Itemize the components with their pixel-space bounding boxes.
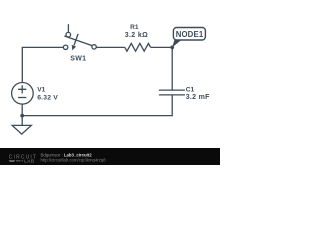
svg-text:R1: R1 (130, 24, 139, 31)
svg-text:LAB: LAB (24, 159, 34, 164)
svg-text:NODE1: NODE1 (176, 30, 204, 39)
svg-text:6.32 V: 6.32 V (37, 95, 58, 102)
svg-text:SW1: SW1 (70, 56, 86, 63)
svg-text:C1: C1 (186, 86, 195, 93)
svg-text:http://circuitlab.com/cqt3kmq4: http://circuitlab.com/cqt3kmq4rzq8 (41, 158, 107, 163)
svg-text:V1: V1 (37, 87, 45, 94)
svg-text:3.2 kΩ: 3.2 kΩ (125, 32, 148, 39)
svg-text:3.2 mF: 3.2 mF (186, 94, 210, 101)
